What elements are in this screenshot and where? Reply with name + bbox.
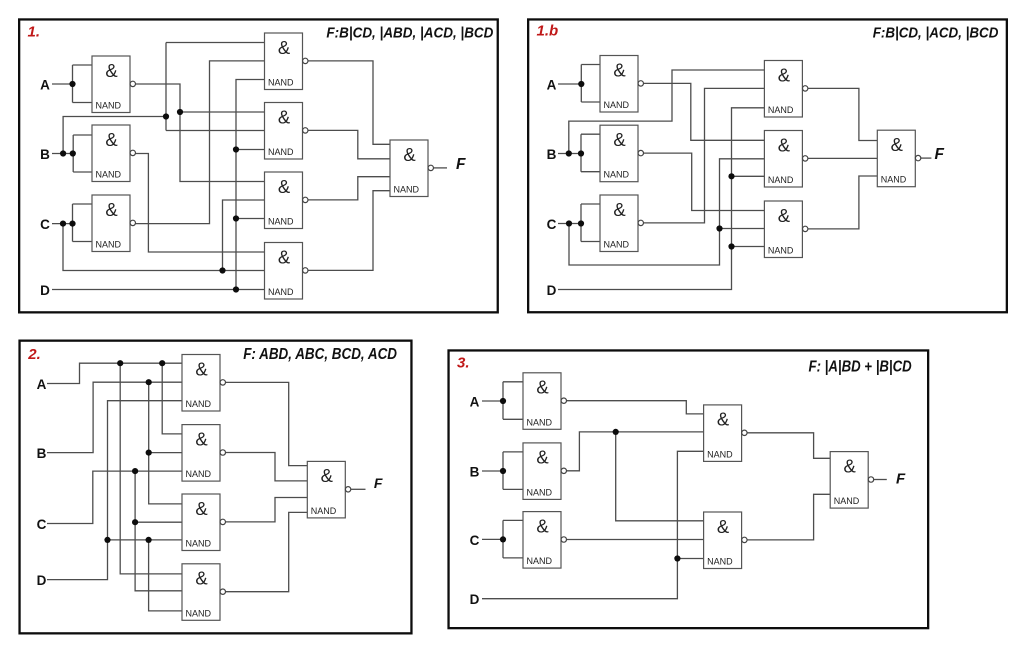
- svg-text:F: F: [374, 475, 383, 491]
- svg-text:A: A: [40, 78, 50, 93]
- svg-text:A: A: [547, 78, 557, 93]
- svg-text:D: D: [470, 592, 480, 607]
- svg-text:2.: 2.: [27, 346, 41, 363]
- svg-text:D: D: [40, 283, 50, 298]
- svg-text:B: B: [547, 147, 557, 162]
- svg-text:A: A: [470, 394, 480, 409]
- svg-text:D: D: [37, 573, 47, 588]
- svg-text:F: F: [896, 470, 906, 487]
- svg-text:F:B|CD, |ABD, |ACD, |BCD: F:B|CD, |ABD, |ACD, |BCD: [326, 25, 493, 42]
- svg-text:3.: 3.: [457, 355, 470, 372]
- svg-text:F: |A|BD + |B|CD: F: |A|BD + |B|CD: [809, 358, 913, 375]
- svg-text:F:B|CD, |ACD, |BCD: F:B|CD, |ACD, |BCD: [873, 25, 999, 42]
- svg-text:B: B: [37, 446, 47, 461]
- svg-text:F: ABD, ABC, BCD, ACD: F: ABD, ABC, BCD, ACD: [243, 346, 397, 363]
- svg-text:A: A: [37, 377, 47, 392]
- svg-text:C: C: [37, 517, 47, 532]
- svg-text:D: D: [547, 283, 557, 298]
- svg-text:F: F: [456, 156, 466, 173]
- svg-text:1.b: 1.b: [537, 23, 559, 40]
- svg-text:B: B: [470, 464, 480, 479]
- svg-text:C: C: [547, 217, 557, 232]
- svg-text:1.: 1.: [28, 24, 41, 41]
- svg-text:B: B: [40, 147, 50, 162]
- svg-text:F: F: [935, 146, 945, 163]
- svg-text:C: C: [40, 217, 50, 232]
- svg-text:C: C: [470, 533, 480, 548]
